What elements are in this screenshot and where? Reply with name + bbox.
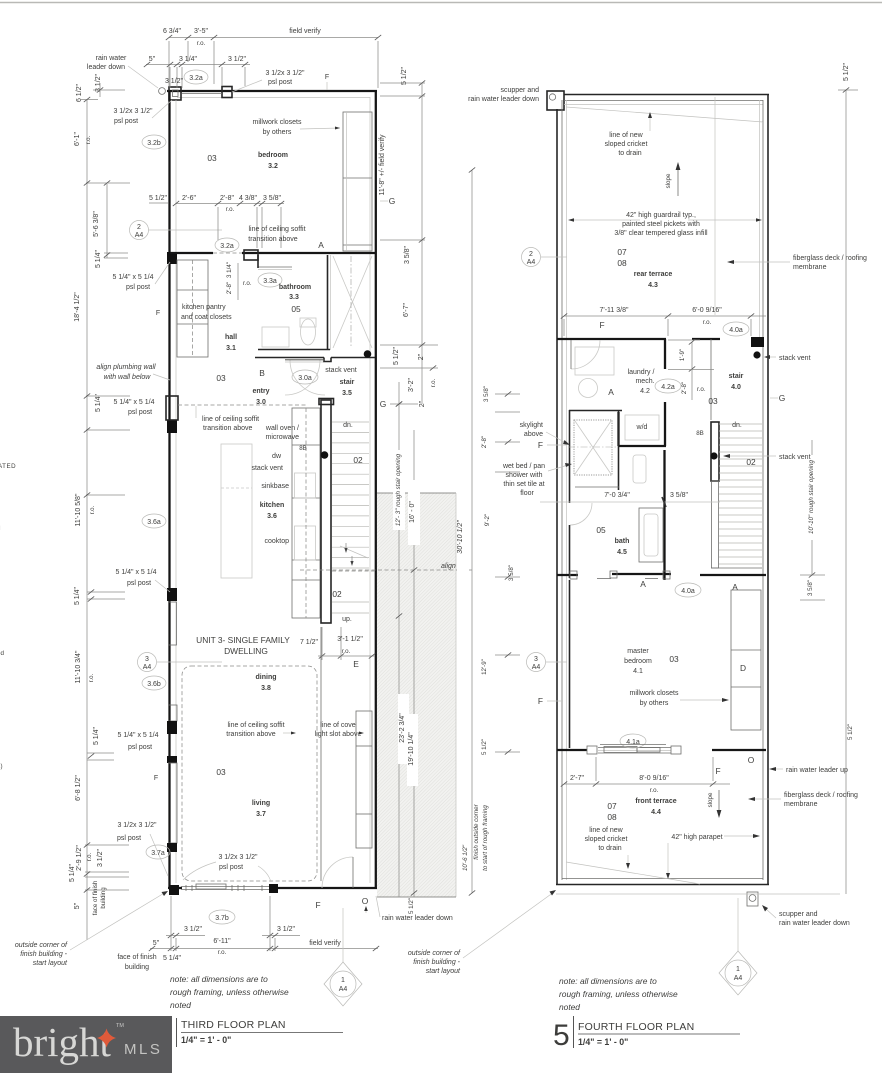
svg-text:2'-8": 2'-8" bbox=[481, 436, 488, 448]
svg-text:11'-10 3/4": 11'-10 3/4" bbox=[75, 650, 82, 683]
svg-text:03: 03 bbox=[207, 153, 217, 163]
svg-text:9'-2": 9'-2" bbox=[484, 514, 491, 526]
svg-text:3.3a: 3.3a bbox=[263, 278, 277, 285]
svg-text:r.o.: r.o. bbox=[85, 135, 92, 144]
svg-text:psl post: psl post bbox=[268, 79, 292, 86]
svg-text:30'-10 1/2": 30'-10 1/2" bbox=[457, 520, 464, 554]
svg-text:5 1/4": 5 1/4" bbox=[69, 863, 76, 882]
svg-text:start layout: start layout bbox=[33, 960, 68, 967]
svg-text:r.o.: r.o. bbox=[88, 673, 95, 682]
svg-text:3.6a: 3.6a bbox=[147, 519, 161, 526]
svg-text:8B: 8B bbox=[696, 430, 704, 437]
svg-text:outside corner of: outside corner of bbox=[408, 950, 461, 957]
svg-text:O: O bbox=[362, 896, 369, 906]
svg-text:psl post: psl post bbox=[128, 409, 152, 416]
svg-text:05: 05 bbox=[291, 304, 301, 314]
svg-text:3 1/2": 3 1/2" bbox=[228, 56, 247, 63]
svg-text:by others: by others bbox=[263, 129, 292, 136]
svg-text:r.o.: r.o. bbox=[89, 505, 96, 514]
svg-text:bathroom: bathroom bbox=[279, 284, 311, 291]
svg-text:r.o.: r.o. bbox=[197, 40, 206, 47]
svg-text:stack vent: stack vent bbox=[251, 465, 283, 472]
svg-text:2": 2" bbox=[418, 353, 425, 360]
svg-text:rear terrace: rear terrace bbox=[634, 271, 673, 278]
svg-text:slope: slope bbox=[665, 173, 672, 188]
svg-text:fiberglass deck / roofing: fiberglass deck / roofing bbox=[784, 792, 858, 799]
svg-text:F: F bbox=[315, 900, 320, 910]
svg-text:F: F bbox=[156, 310, 160, 317]
svg-text:slope: slope bbox=[707, 792, 714, 807]
svg-text:bright: bright bbox=[13, 1019, 112, 1065]
svg-text:dn.: dn. bbox=[732, 422, 742, 429]
svg-text:r.o.: r.o. bbox=[226, 206, 235, 213]
svg-text:3 5/8": 3 5/8" bbox=[404, 245, 411, 264]
svg-text:light slot above: light slot above bbox=[315, 731, 362, 738]
svg-text:12'-9": 12'-9" bbox=[481, 659, 488, 675]
svg-text:3 5/8": 3 5/8" bbox=[263, 195, 282, 202]
svg-text:5": 5" bbox=[74, 902, 81, 909]
svg-text:08: 08 bbox=[617, 258, 627, 268]
svg-text:3.0: 3.0 bbox=[256, 399, 266, 406]
svg-text:3.0a: 3.0a bbox=[298, 375, 312, 382]
svg-text:F: F bbox=[325, 74, 329, 81]
svg-text:by others: by others bbox=[640, 700, 669, 707]
svg-text:1'-9": 1'-9" bbox=[679, 349, 686, 361]
svg-text:line of ceiling soffit: line of ceiling soffit bbox=[227, 722, 284, 729]
svg-text:finish building -: finish building - bbox=[413, 959, 460, 966]
svg-text:D: D bbox=[740, 663, 746, 673]
svg-text:4 3/8": 4 3/8" bbox=[239, 195, 258, 202]
svg-text:face of finish: face of finish bbox=[92, 880, 99, 915]
svg-text:r.o.: r.o. bbox=[697, 386, 706, 393]
svg-text:3.1: 3.1 bbox=[226, 345, 236, 352]
svg-text:18'-4 1/2": 18'-4 1/2" bbox=[74, 292, 81, 322]
svg-text:5 1/2": 5 1/2" bbox=[401, 66, 408, 85]
svg-text:5 1/2": 5 1/2" bbox=[847, 724, 854, 740]
svg-text:noted: noted bbox=[170, 1000, 191, 1010]
svg-text:kitchen: kitchen bbox=[260, 502, 285, 509]
svg-text:rain water leader down: rain water leader down bbox=[382, 915, 453, 922]
svg-text:2'-6": 2'-6" bbox=[182, 195, 196, 202]
svg-text:line of new: line of new bbox=[609, 132, 643, 139]
svg-text:DWELLING: DWELLING bbox=[224, 646, 268, 656]
svg-text:transition above: transition above bbox=[226, 731, 276, 738]
svg-text:2): 2) bbox=[0, 763, 3, 770]
svg-text:rain water leader up: rain water leader up bbox=[786, 767, 848, 774]
svg-text:3.7b: 3.7b bbox=[215, 915, 229, 922]
svg-text:8'-0 9/16": 8'-0 9/16" bbox=[639, 775, 669, 782]
svg-text:1: 1 bbox=[341, 977, 345, 984]
svg-text:A: A bbox=[608, 387, 614, 397]
svg-text:2'-9 1/2": 2'-9 1/2" bbox=[76, 845, 83, 871]
svg-text:F: F bbox=[715, 766, 720, 776]
svg-text:millwork closets: millwork closets bbox=[252, 119, 302, 126]
svg-text:dw: dw bbox=[272, 453, 282, 460]
svg-text:A4: A4 bbox=[532, 664, 541, 671]
svg-text:3 1/2": 3 1/2" bbox=[97, 848, 104, 867]
svg-text:5": 5" bbox=[153, 940, 160, 947]
svg-text:rain water: rain water bbox=[96, 55, 127, 62]
svg-text:42" high guardrail typ.,: 42" high guardrail typ., bbox=[626, 212, 696, 219]
svg-text:4.2a: 4.2a bbox=[661, 384, 675, 391]
svg-text:sloped cricket: sloped cricket bbox=[605, 141, 648, 148]
svg-text:4.5: 4.5 bbox=[617, 549, 627, 556]
svg-text:to start of rough framing: to start of rough framing bbox=[482, 805, 489, 871]
svg-text:line of ceiling soffit: line of ceiling soffit bbox=[248, 226, 305, 233]
svg-text:5 1/4": 5 1/4" bbox=[93, 726, 100, 745]
svg-text:3.2a: 3.2a bbox=[189, 75, 203, 82]
svg-text:r.o.: r.o. bbox=[430, 378, 437, 387]
svg-text:6'-8 1/2": 6'-8 1/2" bbox=[75, 775, 82, 801]
svg-text:F: F bbox=[538, 696, 543, 706]
svg-text:finish building -: finish building - bbox=[20, 951, 67, 958]
svg-text:ed: ed bbox=[0, 650, 4, 657]
svg-text:A4: A4 bbox=[143, 664, 152, 671]
svg-text:note: all dimensions are to: note: all dimensions are to bbox=[170, 974, 268, 984]
svg-text:5 1/4": 5 1/4" bbox=[74, 586, 81, 605]
svg-text:transition above: transition above bbox=[248, 236, 298, 243]
svg-text:3.7: 3.7 bbox=[256, 811, 266, 818]
svg-text:5 1/2": 5 1/2" bbox=[149, 195, 168, 202]
svg-text:stair: stair bbox=[340, 379, 355, 386]
svg-text:G: G bbox=[779, 393, 786, 403]
svg-text:rough framing, unless otherwis: rough framing, unless otherwise bbox=[170, 987, 289, 997]
svg-text:3 1/4": 3 1/4" bbox=[226, 262, 233, 278]
svg-text:F: F bbox=[599, 320, 604, 330]
svg-text:shower with: shower with bbox=[506, 472, 543, 479]
svg-text:2'-8": 2'-8" bbox=[220, 195, 234, 202]
svg-text:6'-11": 6'-11" bbox=[213, 938, 231, 945]
svg-text:align: align bbox=[441, 563, 456, 570]
svg-text:laundry /: laundry / bbox=[628, 369, 655, 376]
svg-text:5 1/4" x 5 1/4: 5 1/4" x 5 1/4 bbox=[117, 732, 158, 739]
svg-text:3: 3 bbox=[145, 656, 149, 663]
svg-text:r.o.: r.o. bbox=[86, 852, 93, 861]
svg-text:3.2: 3.2 bbox=[268, 163, 278, 170]
svg-text:4.1: 4.1 bbox=[633, 668, 643, 675]
svg-text:3.8: 3.8 bbox=[261, 685, 271, 692]
svg-text:4.0a: 4.0a bbox=[729, 327, 743, 334]
svg-text:kitchen pantry: kitchen pantry bbox=[182, 304, 226, 311]
svg-text:B: B bbox=[259, 368, 265, 378]
svg-text:r.o.: r.o. bbox=[243, 280, 252, 287]
svg-text:A4: A4 bbox=[339, 986, 348, 993]
svg-text:leader down: leader down bbox=[87, 64, 125, 71]
svg-text:microwave: microwave bbox=[266, 434, 300, 441]
svg-text:F: F bbox=[154, 775, 158, 782]
svg-text:5 1/4" x 5 1/4: 5 1/4" x 5 1/4 bbox=[115, 569, 156, 576]
svg-text:painted steel pickets with: painted steel pickets with bbox=[622, 221, 700, 228]
svg-text:field verify: field verify bbox=[309, 940, 341, 947]
svg-text:wall oven /: wall oven / bbox=[265, 425, 299, 432]
svg-text:3 1/2x 3 1/2": 3 1/2x 3 1/2" bbox=[113, 108, 153, 115]
svg-text:thin set tile at: thin set tile at bbox=[503, 481, 544, 488]
svg-text:MLS: MLS bbox=[124, 1041, 162, 1058]
svg-text:psl post: psl post bbox=[128, 744, 152, 751]
svg-text:rough framing, unless otherwis: rough framing, unless otherwise bbox=[559, 989, 678, 999]
svg-text:3 1/2x 3 1/2": 3 1/2x 3 1/2" bbox=[117, 822, 157, 829]
svg-text:field verify: field verify bbox=[289, 28, 321, 35]
svg-text:03: 03 bbox=[669, 654, 679, 664]
svg-text:cooktop: cooktop bbox=[264, 538, 289, 545]
svg-text:4.3: 4.3 bbox=[648, 282, 658, 289]
svg-text:1/4" = 1' - 0": 1/4" = 1' - 0" bbox=[181, 1035, 231, 1045]
svg-text:03: 03 bbox=[216, 373, 226, 383]
svg-text:bedroom: bedroom bbox=[624, 658, 652, 665]
svg-text:3/8" clear tempered glass infi: 3/8" clear tempered glass infill bbox=[614, 230, 708, 237]
svg-text:w/d: w/d bbox=[636, 424, 648, 431]
svg-text:12'- 3" rough stair opening: 12'- 3" rough stair opening bbox=[395, 453, 402, 526]
svg-text:TM: TM bbox=[116, 1023, 124, 1029]
svg-text:psl post: psl post bbox=[219, 864, 243, 871]
svg-text:line of ceiling soffit: line of ceiling soffit bbox=[202, 416, 259, 423]
svg-text:front terrace: front terrace bbox=[635, 798, 676, 805]
svg-text:10'-6 1/2": 10'-6 1/2" bbox=[462, 844, 469, 871]
svg-text:6'-7": 6'-7" bbox=[403, 303, 410, 317]
svg-text:5 1/2": 5 1/2" bbox=[393, 346, 400, 365]
svg-text:3 1/4": 3 1/4" bbox=[179, 56, 198, 63]
svg-text:42" high parapet: 42" high parapet bbox=[671, 834, 722, 841]
svg-text:r.o.: r.o. bbox=[650, 787, 659, 794]
svg-text:3: 3 bbox=[534, 656, 538, 663]
svg-text:O: O bbox=[748, 755, 755, 765]
svg-text:2: 2 bbox=[137, 224, 141, 231]
svg-text:to drain: to drain bbox=[598, 845, 621, 852]
svg-text:millwork closets: millwork closets bbox=[629, 690, 679, 697]
svg-text:mech.: mech. bbox=[635, 378, 654, 385]
svg-text:sloped cricket: sloped cricket bbox=[585, 836, 628, 843]
svg-text:07: 07 bbox=[617, 247, 627, 257]
svg-text:to drain: to drain bbox=[618, 150, 641, 157]
svg-text:psl post: psl post bbox=[114, 118, 138, 125]
svg-text:floor: floor bbox=[520, 490, 534, 497]
svg-text:finish outside corner: finish outside corner bbox=[473, 803, 480, 859]
svg-text:entry: entry bbox=[252, 388, 269, 395]
svg-text:dn.: dn. bbox=[343, 422, 353, 429]
svg-text:05: 05 bbox=[596, 525, 606, 535]
svg-text:skylight: skylight bbox=[520, 422, 543, 429]
svg-text:02: 02 bbox=[746, 457, 756, 467]
svg-text:4.0a: 4.0a bbox=[681, 588, 695, 595]
svg-text:1/4" = 1' - 0": 1/4" = 1' - 0" bbox=[578, 1037, 628, 1047]
svg-text:3.5: 3.5 bbox=[342, 390, 352, 397]
svg-text:up.: up. bbox=[342, 616, 352, 623]
svg-text:11'-8" +/- field verify: 11'-8" +/- field verify bbox=[379, 134, 386, 196]
svg-text:5 1/4" x 5 1/4: 5 1/4" x 5 1/4 bbox=[112, 274, 153, 281]
svg-text:noted: noted bbox=[559, 1002, 580, 1012]
svg-text:3 5/8": 3 5/8" bbox=[483, 386, 490, 402]
svg-text:3.3: 3.3 bbox=[289, 294, 299, 301]
svg-text:bath: bath bbox=[615, 538, 630, 545]
svg-text:3 5/8": 3 5/8" bbox=[670, 492, 689, 499]
svg-text:3 1/2": 3 1/2" bbox=[165, 78, 184, 85]
svg-text:3.2a: 3.2a bbox=[220, 243, 234, 250]
svg-text:3.7a: 3.7a bbox=[151, 850, 165, 857]
svg-text:A: A bbox=[732, 582, 738, 592]
svg-text:THIRD FLOOR PLAN: THIRD FLOOR PLAN bbox=[181, 1019, 286, 1031]
svg-text:r.o.: r.o. bbox=[703, 319, 712, 326]
svg-text:bedroom: bedroom bbox=[258, 152, 288, 159]
svg-text:6 3/4": 6 3/4" bbox=[163, 28, 182, 35]
svg-text:02: 02 bbox=[332, 589, 342, 599]
svg-text:2": 2" bbox=[419, 400, 426, 407]
svg-text:08: 08 bbox=[607, 812, 617, 822]
svg-text:G: G bbox=[380, 399, 387, 409]
svg-text:outside corner of: outside corner of bbox=[15, 942, 68, 949]
svg-text:4.0: 4.0 bbox=[731, 384, 741, 391]
svg-text:2'-7": 2'-7" bbox=[570, 775, 584, 782]
svg-text:3 1/2x 3 1/2": 3 1/2x 3 1/2" bbox=[218, 854, 258, 861]
svg-text:A: A bbox=[640, 579, 646, 589]
svg-text:3.6: 3.6 bbox=[267, 513, 277, 520]
svg-text:A4: A4 bbox=[135, 232, 144, 239]
svg-text:stack vent: stack vent bbox=[325, 367, 357, 374]
svg-text:stack vent: stack vent bbox=[779, 454, 811, 461]
svg-text:hall: hall bbox=[225, 334, 237, 341]
svg-text:3.6b: 3.6b bbox=[147, 681, 161, 688]
svg-text:6'-0 9/16": 6'-0 9/16" bbox=[692, 307, 722, 314]
svg-text:line of new: line of new bbox=[589, 827, 623, 834]
svg-text:A4: A4 bbox=[734, 975, 743, 982]
svg-text:2'-8": 2'-8" bbox=[681, 382, 688, 394]
svg-text:ATED: ATED bbox=[0, 463, 16, 470]
svg-text:16' - 0": 16' - 0" bbox=[409, 501, 416, 523]
svg-text:3.2b: 3.2b bbox=[147, 140, 161, 147]
svg-text:start layout: start layout bbox=[426, 968, 461, 975]
svg-text:G: G bbox=[389, 196, 396, 206]
svg-text:with wall below: with wall below bbox=[104, 374, 152, 381]
svg-text:rain water leader down: rain water leader down bbox=[779, 920, 850, 927]
svg-text:3 5/8": 3 5/8" bbox=[508, 565, 515, 581]
svg-text:1: 1 bbox=[736, 966, 740, 973]
svg-text:5 1/4" x 5 1/4: 5 1/4" x 5 1/4 bbox=[113, 399, 154, 406]
svg-text:and coat closets: and coat closets bbox=[181, 314, 232, 321]
svg-text:6'-1": 6'-1" bbox=[74, 132, 81, 146]
svg-text:02: 02 bbox=[353, 455, 363, 465]
svg-text:living: living bbox=[252, 800, 270, 807]
svg-text:UNIT 3- SINGLE FAMILY: UNIT 3- SINGLE FAMILY bbox=[196, 635, 290, 645]
svg-text:A4: A4 bbox=[527, 259, 536, 266]
svg-text:3 5/8": 3 5/8" bbox=[807, 580, 814, 596]
svg-text:F: F bbox=[538, 440, 543, 450]
svg-text:psl post: psl post bbox=[117, 835, 141, 842]
svg-text:scupper and: scupper and bbox=[500, 87, 539, 94]
svg-text:03: 03 bbox=[216, 767, 226, 777]
svg-text:4.2: 4.2 bbox=[640, 388, 650, 395]
svg-text:5 1/4": 5 1/4" bbox=[163, 955, 182, 962]
svg-text:3 1/2": 3 1/2" bbox=[184, 926, 203, 933]
svg-text:membrane: membrane bbox=[793, 264, 827, 271]
svg-text:2: 2 bbox=[529, 251, 533, 258]
svg-text:5: 5 bbox=[553, 1019, 570, 1052]
svg-text:membrane: membrane bbox=[784, 801, 818, 808]
svg-text:19'-10 1/4": 19'-10 1/4" bbox=[408, 732, 415, 766]
svg-text:03: 03 bbox=[708, 396, 718, 406]
svg-text:07: 07 bbox=[607, 801, 617, 811]
svg-text:master: master bbox=[627, 648, 649, 655]
svg-text:7'-0 3/4": 7'-0 3/4" bbox=[604, 492, 630, 499]
svg-text:A: A bbox=[318, 240, 324, 250]
svg-text:3'-5": 3'-5" bbox=[194, 28, 208, 35]
svg-text:3 1/2": 3 1/2" bbox=[277, 926, 296, 933]
svg-text:stair: stair bbox=[729, 373, 744, 380]
svg-text:note: all dimensions are to: note: all dimensions are to bbox=[559, 976, 657, 986]
svg-text:5 1/2": 5 1/2" bbox=[481, 739, 488, 755]
svg-text:transition above: transition above bbox=[203, 425, 253, 432]
svg-text:3'-2": 3'-2" bbox=[408, 378, 415, 392]
svg-text:23'-2 3/4": 23'-2 3/4" bbox=[399, 713, 406, 743]
svg-text:3 1/2x 3 1/2": 3 1/2x 3 1/2" bbox=[265, 70, 305, 77]
svg-text:5 1/2": 5 1/2" bbox=[408, 898, 415, 914]
svg-text:line of cove: line of cove bbox=[320, 722, 356, 729]
svg-text:2'-8": 2'-8" bbox=[226, 282, 233, 294]
svg-text:7 1/2": 7 1/2" bbox=[300, 639, 319, 646]
svg-text:psl post: psl post bbox=[127, 580, 151, 587]
svg-text:wet bed / pan: wet bed / pan bbox=[502, 463, 545, 470]
svg-text:align plumbing wall: align plumbing wall bbox=[96, 364, 156, 371]
svg-text:building: building bbox=[125, 964, 149, 971]
svg-text:rain water leader down: rain water leader down bbox=[468, 96, 539, 103]
svg-text:r.o.: r.o. bbox=[218, 949, 227, 956]
svg-text:dining: dining bbox=[256, 674, 277, 681]
svg-text:psl post: psl post bbox=[126, 284, 150, 291]
svg-text:E: E bbox=[353, 659, 359, 669]
svg-text:7'-11 3/8": 7'-11 3/8" bbox=[600, 307, 630, 314]
svg-text:5 1/2": 5 1/2" bbox=[843, 62, 850, 81]
svg-text:sinkbase: sinkbase bbox=[261, 483, 289, 490]
svg-text:4.1a: 4.1a bbox=[626, 739, 640, 746]
svg-text:face of finish: face of finish bbox=[117, 954, 156, 961]
svg-text:fiberglass deck / roofing: fiberglass deck / roofing bbox=[793, 255, 867, 262]
svg-text:above: above bbox=[524, 431, 543, 438]
svg-text:4.4: 4.4 bbox=[651, 809, 661, 816]
svg-text:5 1/4": 5 1/4" bbox=[95, 249, 102, 268]
svg-text:stack vent: stack vent bbox=[779, 355, 811, 362]
svg-text:5'-6 3/8": 5'-6 3/8" bbox=[93, 211, 100, 237]
svg-text:scupper and: scupper and bbox=[779, 911, 818, 918]
svg-text:11'-10 5/8": 11'-10 5/8" bbox=[75, 493, 82, 526]
svg-text:FOURTH FLOOR PLAN: FOURTH FLOOR PLAN bbox=[578, 1021, 694, 1033]
svg-text:10'-10" rough stair opening: 10'-10" rough stair opening bbox=[808, 459, 815, 533]
svg-text:8B: 8B bbox=[299, 445, 307, 452]
